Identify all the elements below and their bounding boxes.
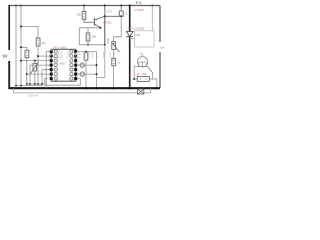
svg-text:10k: 10k <box>77 13 82 17</box>
svg-text:VT1: VT1 <box>107 10 113 14</box>
collector network <box>99 27 101 29</box>
transistor VT1 (PNP) <box>93 18 95 26</box>
node at 21,60.6 <box>20 60 22 62</box>
svg-text:VD1 D226B: VD1 D226B <box>128 27 144 31</box>
wire diode node to coil <box>130 38 135 40</box>
LED HL1 <box>80 63 85 68</box>
wire h y=44.8 <box>79 44 105 46</box>
right bus vertical <box>96 52 98 89</box>
U-loop wire under IC (pin7 to pin8) <box>45 79 81 86</box>
svg-text:2sxem.ru: 2sxem.ru <box>48 47 118 61</box>
svg-text:zv1: zv1 <box>140 53 144 56</box>
svg-text:470k: 470k <box>106 37 110 44</box>
bracket junction dots <box>26 83 28 85</box>
svg-text:R7 100: R7 100 <box>137 72 147 76</box>
contact chord line <box>134 66 147 68</box>
wire vertical bus A (x=16) <box>15 6 17 86</box>
nested ground bracket 1 <box>27 83 46 85</box>
node at 21,26.5 <box>20 26 22 28</box>
wire pin row4 <box>30 64 51 66</box>
bottom 0V rail (thick) <box>9 87 161 89</box>
wire pin row3 <box>21 60 51 62</box>
right side wire <box>159 6 161 43</box>
resistor R3 <box>25 50 29 57</box>
node at 26.8,74.1 <box>26 73 28 75</box>
node at 34.8,60.6 <box>34 60 36 62</box>
IC pads right <box>74 50 77 80</box>
wire collector tail down <box>104 45 106 78</box>
capacitor C1 box at top <box>120 5 122 7</box>
rail junction dots left <box>15 5 17 7</box>
svg-text:4017: 4017 <box>60 62 67 66</box>
trimmer RP1 <box>34 61 36 64</box>
wire emitter node to C1 bottom <box>105 15 121 17</box>
svg-text:3,6 mA: 3,6 mA <box>29 94 39 98</box>
svg-text:KT3107: KT3107 <box>135 8 145 12</box>
wire from contact left down <box>133 67 135 79</box>
wire R3 bottom down <box>26 58 28 84</box>
wire down to pot feed <box>114 16 122 41</box>
wire h y=27.8 <box>79 27 100 29</box>
wire pot bottom to R6 <box>113 50 115 59</box>
potentiometer RP2 <box>112 42 116 50</box>
long vertical from rail x=104.8 <box>104 16 106 45</box>
resistor R6 <box>112 58 116 66</box>
resistor R4 <box>87 28 89 33</box>
wire R1 bottom to base <box>84 19 94 22</box>
LED HL2 <box>80 72 85 77</box>
bell window panes <box>139 62 143 67</box>
resistor R5 <box>84 53 88 61</box>
wire right pin row4 with LED1 <box>77 64 96 66</box>
IC pin circles left <box>54 50 57 80</box>
node at 38,56.1 <box>37 55 39 57</box>
IC pin circles right <box>70 50 73 80</box>
svg-text:9 V: 9 V <box>136 1 142 5</box>
nested ground bracket 2 <box>16 85 42 87</box>
wire emitter to rail <box>104 6 106 17</box>
top supply rail <box>9 5 161 7</box>
connector X1 below rail <box>138 89 144 94</box>
wire to R7 <box>134 78 137 80</box>
svg-text:1M: 1M <box>42 41 47 45</box>
emitter node <box>104 15 106 17</box>
node at 21,47.3 <box>20 46 22 48</box>
svg-text:Om: Om <box>160 46 165 50</box>
battery negative wire (left, lower) <box>8 61 10 89</box>
bottom return thin wire <box>14 92 151 94</box>
battery positive wire (left, upper) <box>8 5 10 50</box>
resistor R7 (horizontal) <box>137 77 149 82</box>
diode VD1 <box>126 32 133 37</box>
svg-text:C1: C1 <box>124 12 128 16</box>
wire to R3 top <box>21 47 27 50</box>
resistor R2 <box>36 38 40 46</box>
wire pin row5 <box>42 69 51 71</box>
IC pads left <box>50 50 53 80</box>
resistor R1 (base resistor from rail) <box>83 5 85 7</box>
svg-text:10k: 10k <box>92 35 97 39</box>
wire vertical bus B (x=21) <box>20 6 22 86</box>
IC U1 body <box>51 49 75 81</box>
wire right pin row1 to bus <box>77 51 96 53</box>
wire v x=79.3 <box>78 28 80 45</box>
wire rail to coil right <box>151 6 153 31</box>
wire R6 bottom to rail <box>113 66 115 88</box>
svg-text:VD1: VD1 <box>135 33 141 37</box>
relay coil box K1 <box>135 31 155 47</box>
wire horizontal to R2 top <box>21 27 38 39</box>
wire pin row1 <box>46 51 51 53</box>
wire pin row6 stub <box>27 73 51 75</box>
svg-text:9V: 9V <box>3 54 8 59</box>
switch arm <box>148 67 153 73</box>
thick feed wire x=129.7 <box>129 4 131 6</box>
wire R2 bottom to IC pin row2 <box>37 46 39 84</box>
wire R7 right to rail <box>149 79 157 88</box>
wire pin row2 stub <box>38 55 51 57</box>
wire right pin row6 with LED2 <box>77 73 96 75</box>
tick joining rails bottom-left <box>13 88 15 93</box>
